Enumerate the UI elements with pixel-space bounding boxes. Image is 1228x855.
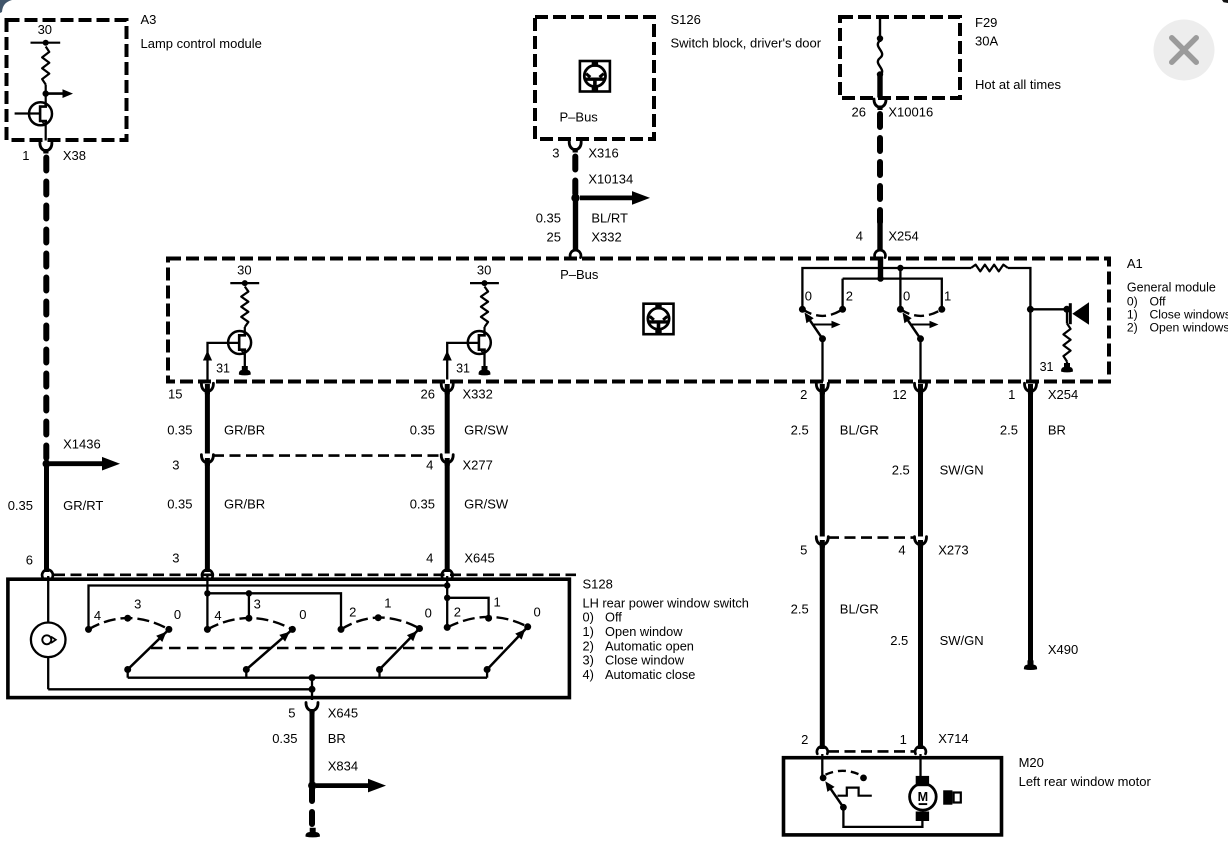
svg-text:30: 30 (237, 263, 251, 278)
terminal 30 bar (A3) (31, 42, 61, 44)
svg-text:0.35: 0.35 (167, 423, 192, 438)
svg-text:X38: X38 (63, 148, 86, 163)
svg-text:X332: X332 (591, 230, 621, 245)
connector X273 line (828, 536, 915, 539)
node fuse top (877, 35, 883, 41)
wire to buzzer (1030, 308, 1066, 310)
svg-text:X645: X645 (328, 706, 358, 721)
node 0-rail right (1027, 306, 1034, 313)
switch SW1 dashed arc (802, 309, 842, 316)
node switch S2 foot (243, 666, 250, 673)
svg-text:X277: X277 (463, 458, 493, 473)
switch S4 dashed arc (447, 617, 528, 628)
connector pins X332 row (201, 383, 213, 391)
wire pin4 down (446, 586, 448, 628)
svg-text:3: 3 (254, 597, 261, 612)
switch SW1 contact 2 (839, 306, 846, 313)
svg-text:Close windows: Close windows (1150, 308, 1228, 322)
svg-text:X834: X834 (328, 759, 358, 774)
svg-text:BR: BR (1048, 423, 1066, 438)
lamp symbol E (illumination) (31, 623, 66, 658)
svg-text:0: 0 (533, 605, 540, 620)
transistor Q in A3 (29, 102, 52, 126)
svg-text:26: 26 (421, 387, 435, 402)
node SW2 arm pivot (917, 335, 924, 342)
base wire (A3 transistor) (15, 112, 41, 114)
svg-text:A3: A3 (141, 12, 157, 27)
svg-text:0.35: 0.35 (167, 497, 192, 512)
svg-text:12: 12 (892, 387, 906, 402)
node battery rail center (877, 275, 883, 281)
svg-text:4: 4 (214, 608, 221, 623)
svg-text:General module: General module (1127, 281, 1216, 295)
svg-text:5: 5 (288, 706, 295, 721)
motor M armature (916, 776, 929, 786)
feed line from pin 4 X645 (446, 576, 448, 586)
svg-text:4: 4 (856, 229, 863, 244)
signal arrow (A3) (46, 92, 63, 95)
wire SW/GN lower (918, 540, 923, 749)
svg-text:3: 3 (172, 458, 179, 473)
svg-text:Hot at all times: Hot at all times (975, 77, 1061, 92)
node terminal 30 (A1 left) (242, 280, 248, 286)
svg-text:X490: X490 (1048, 642, 1078, 657)
node pin4 branch (444, 595, 450, 601)
wire stub to X254 (877, 222, 882, 250)
bus line upper (0-rail) with resistor (802, 268, 971, 309)
node 0-rail tap (897, 265, 903, 271)
wire X254 feed inside A1 (878, 257, 883, 279)
terminal 30 bar (A1 mid) (470, 282, 499, 284)
connector ring pin 4 (X645) (442, 570, 453, 577)
switch S3 contacts (338, 626, 345, 633)
svg-text:3: 3 (172, 551, 179, 566)
wire to pin 5 exit (311, 678, 313, 700)
branch to SW4 contact 1 (447, 598, 488, 618)
steering wheel icon (A1) (644, 304, 674, 335)
connector X645 line (54, 573, 576, 576)
switch SW1 motion arrow (812, 323, 832, 325)
node buzzer tap (1063, 306, 1070, 313)
wire switch S1 foot stub (127, 670, 129, 678)
svg-text:25: 25 (547, 230, 561, 245)
steering wheel icon (S126) (580, 61, 610, 92)
svg-text:SW/GN: SW/GN (940, 633, 984, 648)
node junction X10134 (571, 194, 579, 202)
svg-text:0): 0) (1127, 295, 1138, 309)
connector pins X254 row (816, 383, 828, 391)
connector ring X254 into A1 (875, 250, 886, 257)
svg-text:2.5: 2.5 (892, 463, 910, 478)
switch SW2 arm (905, 315, 921, 339)
svg-text:2.5: 2.5 (890, 633, 908, 648)
module box S126 (535, 17, 654, 139)
connector X38 (40, 143, 52, 151)
svg-text:0.35: 0.35 (8, 498, 33, 513)
module box A3 (7, 20, 127, 140)
splice arrow X10134 (580, 195, 632, 200)
svg-text:X254: X254 (888, 229, 918, 244)
close button (1154, 20, 1215, 81)
node SW1 arm pivot (819, 335, 826, 342)
svg-text:30: 30 (38, 22, 52, 37)
fuse box F29 (840, 17, 960, 98)
svg-text:X645: X645 (464, 551, 494, 566)
svg-text:1: 1 (1008, 387, 1015, 402)
wire X10016 dashed feed (877, 114, 883, 222)
connector ring pin 1 (X714) (915, 746, 926, 753)
svg-text:0.35: 0.35 (272, 731, 297, 746)
switch S3 arm (380, 630, 419, 670)
wire pin1 to motor (919, 754, 921, 777)
switch SW2 contact 1 (938, 306, 945, 313)
wire BL/GR lower (820, 540, 825, 749)
splice arrow X834 (316, 783, 368, 788)
node fuse bottom (877, 71, 883, 77)
connector icon (M20) (943, 790, 952, 804)
wire to transistor 1 (244, 327, 246, 332)
svg-text:Switch block, driver's door: Switch block, driver's door (671, 36, 822, 51)
svg-text:GR/SW: GR/SW (464, 423, 509, 438)
svg-text:30: 30 (477, 263, 491, 278)
svg-text:6: 6 (26, 553, 33, 568)
svg-text:1: 1 (493, 595, 500, 610)
wire SW/GN upper (918, 384, 923, 537)
svg-text:F29: F29 (975, 15, 997, 30)
svg-text:P–Bus: P–Bus (560, 267, 599, 282)
svg-text:31: 31 (1040, 360, 1054, 374)
svg-text:3: 3 (134, 597, 141, 612)
svg-text:2): 2) (583, 638, 594, 653)
connector X273 left (816, 537, 828, 545)
base feed with arrow (pin 15) (208, 343, 240, 380)
svg-text:30A: 30A (975, 34, 998, 49)
node rail A junction (309, 674, 316, 681)
svg-text:BL/GR: BL/GR (840, 602, 879, 617)
transistor Q1 (A1) (228, 331, 251, 355)
S128 internal dashed line (151, 647, 503, 649)
svg-text:2: 2 (800, 387, 807, 402)
svg-text:Open windows: Open windows (1150, 321, 1228, 335)
end marker X834 (306, 828, 320, 838)
svg-text:4): 4) (583, 667, 594, 682)
svg-text:X332: X332 (463, 387, 493, 402)
switch SW1 arm (807, 315, 823, 339)
svg-text:Left rear window motor: Left rear window motor (1019, 774, 1152, 789)
svg-text:2: 2 (454, 605, 461, 620)
splice arrow X1436 (50, 461, 102, 466)
svg-text:X254: X254 (1048, 387, 1078, 402)
svg-text:X10134: X10134 (588, 172, 633, 187)
wire GR/SW lower (445, 458, 450, 572)
svg-text:A1: A1 (1127, 256, 1143, 271)
svg-text:0.35: 0.35 (536, 211, 561, 226)
svg-text:GR/SW: GR/SW (464, 497, 509, 512)
switch S4 contacts (444, 624, 451, 631)
wire GR/SW upper (445, 384, 450, 454)
switch S1 arm (128, 631, 168, 670)
svg-text:Close window: Close window (605, 653, 685, 668)
svg-text:0: 0 (805, 289, 812, 304)
ground 31 (A1 circuit 1) (239, 366, 251, 375)
svg-text:M: M (918, 790, 929, 804)
node switch S1 foot (124, 666, 131, 673)
svg-text:2.5: 2.5 (791, 423, 809, 438)
svg-text:Off: Off (1150, 295, 1167, 309)
svg-text:0: 0 (299, 607, 306, 622)
ground X490 (1024, 660, 1037, 670)
resistor A1 circuit 1 (241, 287, 248, 328)
svg-text:1: 1 (944, 289, 951, 304)
resistor A1 circuit 2 (481, 287, 488, 328)
svg-text:26: 26 (852, 105, 866, 120)
svg-text:LH rear power window switch: LH rear power window switch (583, 596, 749, 611)
svg-text:BR: BR (328, 731, 346, 746)
svg-text:Off: Off (605, 610, 622, 625)
switch SW2 contact 0 (897, 306, 904, 313)
svg-text:Automatic open: Automatic open (605, 638, 694, 653)
wire X834 dashed tail (309, 789, 315, 826)
svg-text:2: 2 (846, 289, 853, 304)
module box A1 (168, 259, 1109, 382)
connector X277 right (441, 455, 453, 463)
wire GR/RT solid (44, 464, 49, 572)
svg-text:0.35: 0.35 (410, 423, 435, 438)
bus line lower (battery rail) (843, 279, 942, 310)
switch S3 dashed arc (341, 618, 420, 630)
switch S1 contacts (85, 626, 92, 633)
svg-text:GR/BR: GR/BR (224, 423, 265, 438)
svg-text:4: 4 (426, 551, 433, 566)
switch S4 arm (487, 628, 526, 669)
node terminal 30 (A1 mid) (482, 280, 488, 286)
feed line from pin 3 X645 (206, 576, 208, 629)
svg-text:1: 1 (900, 732, 907, 747)
wire to SW2 contact 3 (248, 593, 250, 618)
node switch S4 foot (484, 666, 491, 673)
connector X714 line (828, 750, 915, 753)
svg-text:Open window: Open window (605, 624, 683, 639)
switch S2 contacts (204, 626, 211, 633)
svg-text:1: 1 (384, 596, 391, 611)
wire buzzer to resistor (1066, 309, 1068, 323)
node terminal 30 (A3) (43, 40, 49, 46)
wire arm to motor (843, 807, 922, 827)
node junction X1436 (43, 460, 51, 468)
wire SW1 to pin 2 (821, 339, 823, 382)
lamp return rail (48, 688, 312, 690)
transistor Q2 (A1) (468, 331, 491, 355)
svg-text:31: 31 (216, 362, 230, 376)
svg-text:0): 0) (583, 610, 594, 625)
connector X277 line (213, 454, 442, 457)
svg-text:0: 0 (903, 289, 910, 304)
switch S2 arm (246, 631, 291, 670)
page corner artifact top-right (1222, 0, 1228, 3)
wire switch S4 foot stub (486, 670, 488, 678)
svg-text:GR/BR: GR/BR (224, 497, 265, 512)
fuse element F29 (878, 41, 882, 76)
node junction X834 (308, 781, 316, 789)
node M20 arc end (860, 775, 867, 782)
svg-text:2: 2 (349, 605, 356, 620)
switch SW1 contact 0 (799, 306, 806, 313)
svg-text:X1436: X1436 (63, 437, 101, 452)
wire BR to ground (1028, 384, 1033, 661)
svg-text:15: 15 (168, 387, 182, 402)
wire pin2 into M20 (821, 754, 823, 778)
wire resistor to junction (A3) (45, 85, 47, 104)
svg-text:31: 31 (456, 362, 470, 376)
svg-text:2.5: 2.5 (791, 602, 809, 617)
motor box M20 (784, 758, 1002, 835)
node rail B junction (309, 686, 316, 693)
wire to transistor 2 (483, 327, 485, 332)
svg-text:0: 0 (425, 606, 432, 621)
node M20 arm foot (840, 804, 847, 811)
svg-text:Lamp control module: Lamp control module (141, 36, 262, 51)
connector X273 right (914, 537, 926, 545)
wire X38 dashed feed (43, 158, 49, 459)
switch box S128 (8, 579, 570, 697)
svg-text:X10016: X10016 (888, 105, 933, 120)
svg-text:1): 1) (583, 624, 594, 639)
svg-text:BL/GR: BL/GR (840, 423, 879, 438)
terminal 30 bar (A1 left) (230, 282, 259, 284)
switch S2 dashed arc (207, 618, 292, 629)
wire GR/BR upper (205, 384, 210, 454)
wire pin6 to lamp (47, 576, 49, 623)
svg-text:3: 3 (552, 146, 559, 161)
svg-text:M20: M20 (1019, 755, 1044, 770)
svg-text:S128: S128 (583, 577, 613, 592)
switch SW2 motion arrow (910, 323, 930, 325)
emitter wire Q2 (483, 354, 485, 367)
node pin4 feed (444, 582, 450, 588)
ground 31 (A1 right) (1061, 363, 1073, 372)
page corner artifact top-left (0, 0, 12, 13)
svg-text:2: 2 (801, 732, 808, 747)
wire SW2 to pin 12 (919, 339, 921, 382)
svg-text:4: 4 (898, 543, 905, 558)
svg-text:GR/RT: GR/RT (63, 498, 103, 513)
svg-text:P–Bus: P–Bus (560, 110, 599, 125)
svg-text:1: 1 (22, 148, 29, 163)
wire lamp to rail (47, 657, 49, 689)
wire BL/RT solid (573, 198, 578, 250)
M20 switch dashed arc (826, 771, 862, 776)
svg-text:1): 1) (1127, 308, 1138, 322)
arm rail (128, 677, 487, 679)
svg-text:X273: X273 (938, 543, 968, 558)
base feed with arrow (pin 26) (447, 343, 479, 380)
svg-text:2.5: 2.5 (1000, 423, 1018, 438)
M20 switch arm (828, 784, 844, 807)
wire into fuse (879, 18, 881, 42)
svg-text:5: 5 (800, 543, 807, 558)
connector ring pin 2 (X714) (817, 746, 828, 753)
emitter wire (A3) (45, 125, 47, 141)
wire BL/GR upper (820, 384, 825, 537)
wire X316 dashed (572, 157, 578, 195)
svg-text:0: 0 (174, 607, 181, 622)
ground 31 (A1 circuit 2) (479, 366, 491, 375)
resistor A1 right (1063, 324, 1070, 362)
resistor in A3 (42, 47, 49, 85)
node SW2 contact3 feed (246, 590, 252, 596)
svg-text:SW/GN: SW/GN (940, 463, 984, 478)
svg-text:BL/RT: BL/RT (591, 211, 628, 226)
node M20 switch common (820, 775, 827, 782)
wire switch S2 foot stub (245, 670, 247, 678)
svg-text:X714: X714 (938, 731, 968, 746)
connector X10016 (874, 99, 886, 107)
wire 0-rail to switch 2 common (899, 268, 901, 309)
wire BR bottom (310, 710, 315, 786)
switch SW2 dashed arc (900, 309, 941, 316)
node junction (A3) (43, 90, 49, 96)
connector X316 (569, 142, 581, 150)
buzzer symbol (1069, 303, 1072, 324)
limit switch step symbol (838, 788, 872, 796)
svg-text:4: 4 (426, 458, 433, 473)
wire GR/BR lower (205, 458, 210, 572)
svg-text:S126: S126 (671, 12, 701, 27)
emitter wire Q1 (244, 354, 246, 367)
connector X277 left (201, 455, 213, 463)
switch S1 dashed arc (89, 618, 169, 629)
wire fuse to X10016 (877, 76, 882, 98)
connector ring X332 into A1 (570, 250, 581, 257)
svg-text:4: 4 (94, 608, 101, 623)
connector X645 pin 5 (306, 703, 318, 711)
svg-text:3): 3) (583, 653, 594, 668)
connector ring pin 3 (X645) (202, 570, 213, 577)
svg-text:0.35: 0.35 (410, 497, 435, 512)
wire switch S3 foot stub (378, 670, 380, 678)
svg-text:2): 2) (1127, 321, 1138, 335)
node switch S3 foot (376, 666, 383, 673)
connector ring pin 6 (X645) (42, 570, 53, 577)
node pin3 feed (204, 590, 210, 596)
svg-text:X316: X316 (588, 146, 618, 161)
svg-text:Automatic close: Automatic close (605, 667, 695, 682)
